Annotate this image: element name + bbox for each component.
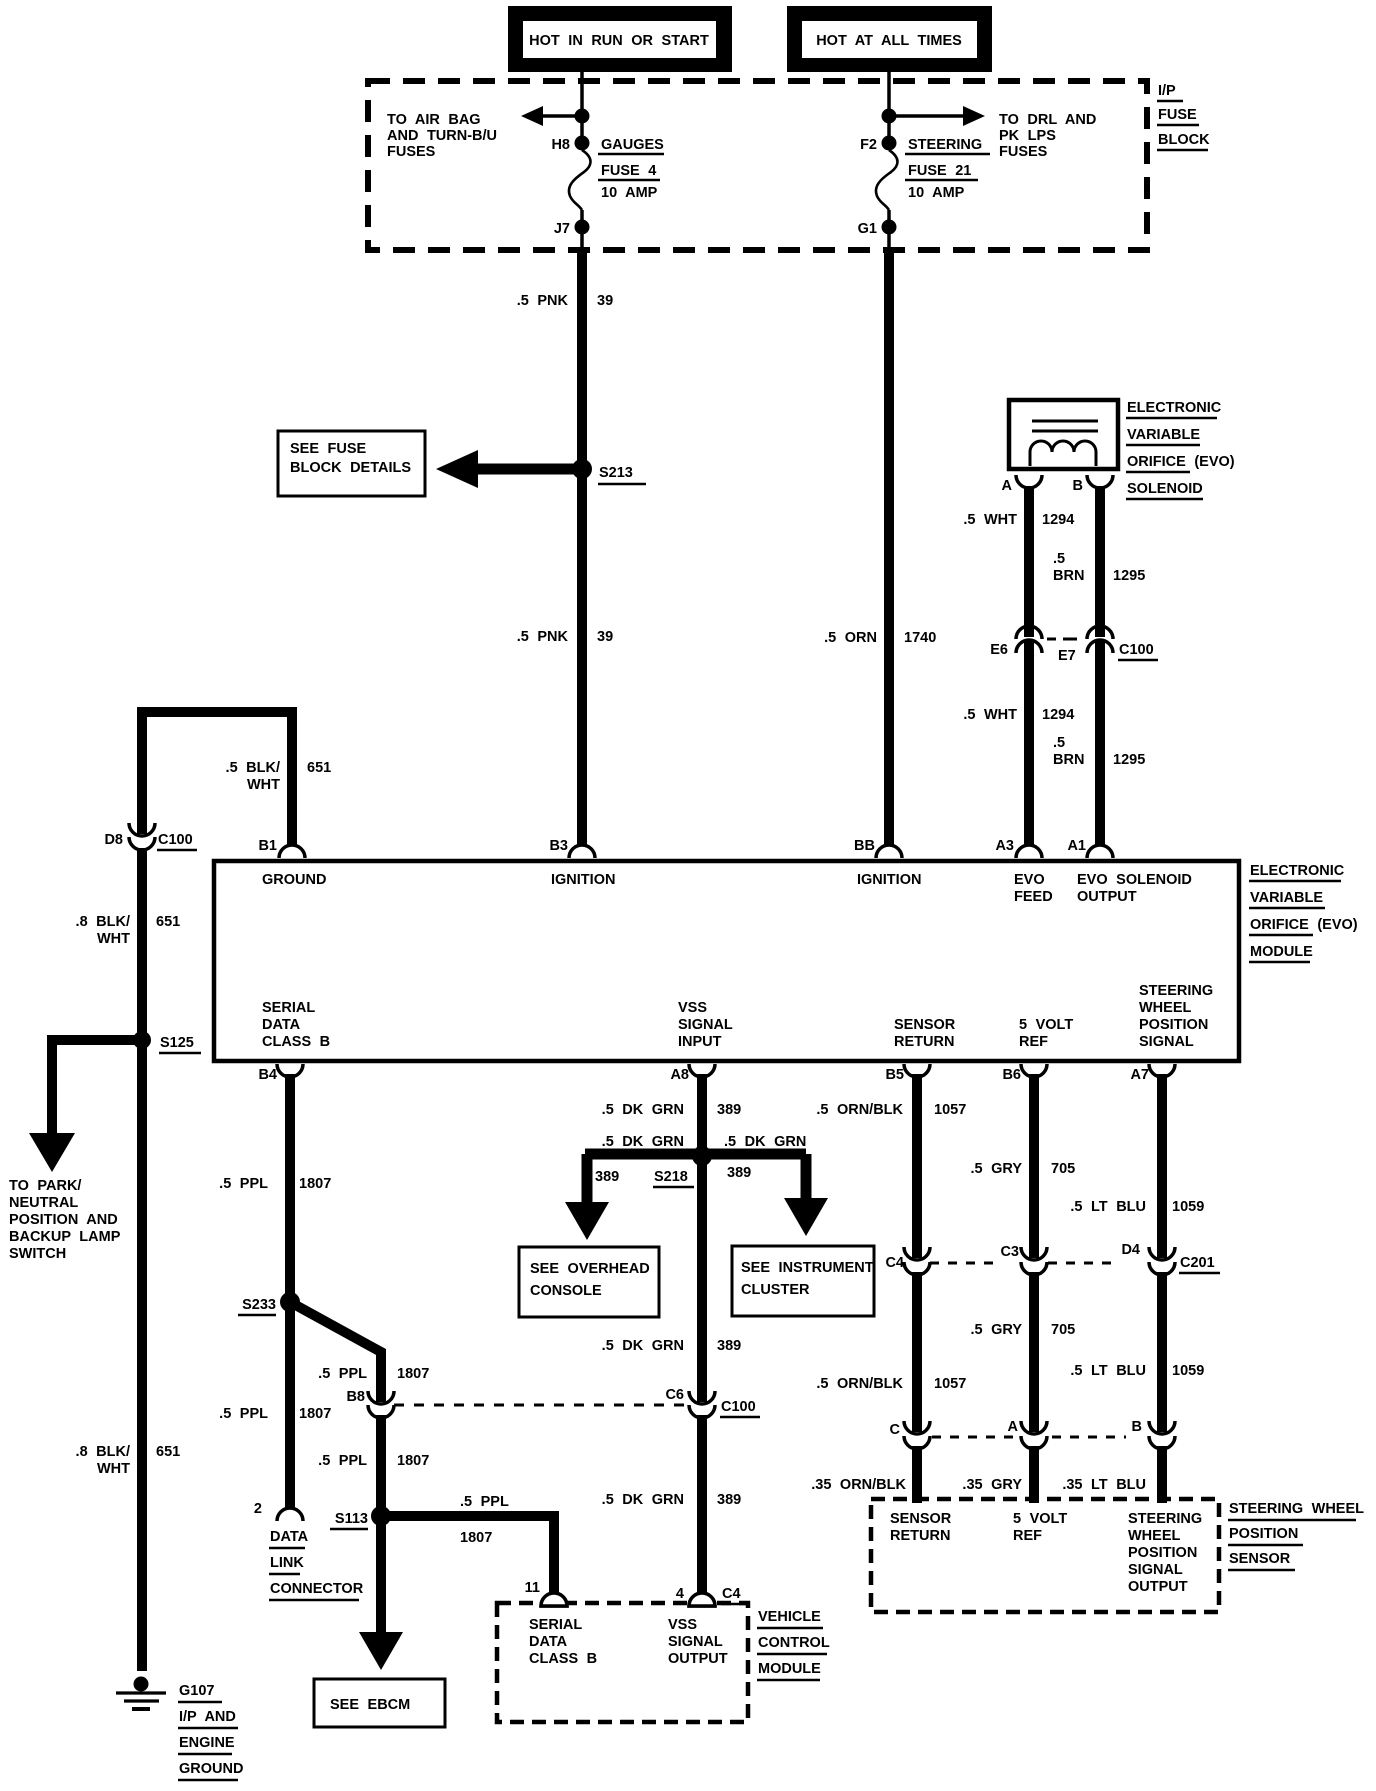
svg-text:STEERING: STEERING	[1128, 1511, 1202, 1527]
svg-text:B3: B3	[549, 838, 568, 854]
svg-text:BLOCK DETAILS: BLOCK DETAILS	[290, 460, 411, 476]
svg-text:GAUGES: GAUGES	[601, 137, 664, 153]
svg-text:OUTPUT: OUTPUT	[668, 1651, 728, 1667]
svg-text:1294: 1294	[1042, 512, 1074, 528]
svg-text:BACKUP LAMP: BACKUP LAMP	[9, 1229, 121, 1245]
svg-text:.5 LT BLU: .5 LT BLU	[1070, 1199, 1146, 1215]
svg-text:STEERING WHEEL: STEERING WHEEL	[1229, 1501, 1364, 1517]
svg-text:B: B	[1132, 1419, 1142, 1435]
svg-text:389: 389	[727, 1165, 751, 1181]
svg-text:1740: 1740	[904, 630, 936, 646]
svg-text:I/P: I/P	[1158, 83, 1176, 99]
svg-text:ELECTRONIC: ELECTRONIC	[1127, 400, 1222, 416]
svg-text:1807: 1807	[397, 1453, 429, 1469]
svg-text:1295: 1295	[1113, 752, 1145, 768]
svg-text:1807: 1807	[299, 1406, 331, 1422]
svg-text:SENSOR: SENSOR	[894, 1017, 956, 1033]
svg-text:D4: D4	[1121, 1242, 1140, 1258]
svg-text:SEE FUSE: SEE FUSE	[290, 441, 367, 457]
svg-text:FUSE 4: FUSE 4	[601, 163, 656, 179]
svg-text:389: 389	[717, 1338, 741, 1354]
svg-text:A1: A1	[1067, 838, 1086, 854]
svg-text:E7: E7	[1058, 648, 1076, 664]
svg-text:1057: 1057	[934, 1376, 966, 1392]
svg-text:39: 39	[597, 629, 613, 645]
svg-text:IGNITION: IGNITION	[857, 872, 921, 888]
svg-text:E6: E6	[990, 642, 1008, 658]
svg-text:TO DRL AND: TO DRL AND	[999, 112, 1096, 128]
svg-text:S218: S218	[654, 1169, 688, 1185]
svg-text:FUSE: FUSE	[1158, 107, 1197, 123]
svg-text:SEE EBCM: SEE EBCM	[330, 1697, 410, 1713]
svg-text:ELECTRONIC: ELECTRONIC	[1250, 863, 1345, 879]
svg-text:SEE INSTRUMENT: SEE INSTRUMENT	[741, 1260, 874, 1276]
svg-text:S233: S233	[242, 1297, 276, 1313]
svg-text:POSITION: POSITION	[1229, 1526, 1298, 1542]
svg-text:C4: C4	[722, 1586, 741, 1602]
svg-text:TO PARK/: TO PARK/	[9, 1178, 81, 1194]
svg-text:HOT IN RUN OR START: HOT IN RUN OR START	[529, 33, 709, 49]
svg-text:WHT: WHT	[97, 931, 130, 947]
svg-text:OUTPUT: OUTPUT	[1128, 1579, 1188, 1595]
svg-text:STEERING: STEERING	[1139, 983, 1213, 999]
svg-text:A: A	[1002, 478, 1013, 494]
svg-text:POSITION: POSITION	[1128, 1545, 1197, 1561]
svg-text:VARIABLE: VARIABLE	[1250, 890, 1323, 906]
svg-text:MODULE: MODULE	[1250, 944, 1313, 960]
svg-text:5 VOLT: 5 VOLT	[1019, 1017, 1073, 1033]
svg-text:.5 DK GRN: .5 DK GRN	[602, 1102, 684, 1118]
svg-text:WHEEL: WHEEL	[1128, 1528, 1181, 1544]
svg-text:FUSES: FUSES	[387, 144, 436, 160]
svg-text:BRN: BRN	[1053, 568, 1084, 584]
svg-text:651: 651	[307, 760, 331, 776]
svg-text:VARIABLE: VARIABLE	[1127, 427, 1200, 443]
svg-text:MODULE: MODULE	[758, 1661, 821, 1677]
svg-text:C4: C4	[885, 1255, 904, 1271]
svg-text:.5 DK GRN: .5 DK GRN	[602, 1134, 684, 1150]
svg-text:HOT AT ALL TIMES: HOT AT ALL TIMES	[816, 33, 962, 49]
svg-text:WHEEL: WHEEL	[1139, 1000, 1192, 1016]
svg-text:1294: 1294	[1042, 707, 1074, 723]
svg-text:EVO: EVO	[1014, 872, 1045, 888]
svg-text:LINK: LINK	[270, 1555, 304, 1571]
svg-text:C100: C100	[158, 832, 193, 848]
svg-text:FEED: FEED	[1014, 889, 1053, 905]
svg-text:C: C	[890, 1422, 901, 1438]
svg-text:1059: 1059	[1172, 1363, 1204, 1379]
svg-text:S125: S125	[160, 1035, 194, 1051]
svg-text:C3: C3	[1000, 1244, 1019, 1260]
svg-text:SWITCH: SWITCH	[9, 1246, 66, 1262]
svg-text:SIGNAL: SIGNAL	[1139, 1034, 1194, 1050]
svg-text:.5 DK GRN: .5 DK GRN	[602, 1492, 684, 1508]
svg-text:389: 389	[595, 1169, 619, 1185]
svg-text:.5 PPL: .5 PPL	[318, 1453, 367, 1469]
svg-text:ORIFICE (EVO): ORIFICE (EVO)	[1127, 454, 1235, 470]
svg-text:389: 389	[717, 1492, 741, 1508]
svg-text:B6: B6	[1002, 1067, 1021, 1083]
svg-text:.5 GRY: .5 GRY	[970, 1322, 1022, 1338]
svg-text:SENSOR: SENSOR	[1229, 1551, 1291, 1567]
svg-text:1295: 1295	[1113, 568, 1145, 584]
svg-text:.5 GRY: .5 GRY	[970, 1161, 1022, 1177]
svg-text:5 VOLT: 5 VOLT	[1013, 1511, 1067, 1527]
svg-text:A7: A7	[1130, 1067, 1149, 1083]
svg-text:.5 PPL: .5 PPL	[460, 1494, 509, 1510]
svg-text:GROUND: GROUND	[179, 1761, 243, 1777]
svg-text:GROUND: GROUND	[262, 872, 326, 888]
svg-text:.5 ORN: .5 ORN	[824, 630, 877, 646]
svg-text:389: 389	[717, 1102, 741, 1118]
svg-text:SERIAL: SERIAL	[262, 1000, 315, 1016]
svg-text:.35 GRY: .35 GRY	[962, 1477, 1022, 1493]
svg-text:REF: REF	[1013, 1528, 1042, 1544]
svg-text:SIGNAL: SIGNAL	[678, 1017, 733, 1033]
svg-text:.5 LT BLU: .5 LT BLU	[1070, 1363, 1146, 1379]
svg-text:.5 DK GRN: .5 DK GRN	[602, 1338, 684, 1354]
svg-text:SEE OVERHEAD: SEE OVERHEAD	[530, 1261, 650, 1277]
svg-text:DATA: DATA	[270, 1529, 309, 1545]
svg-text:10 AMP: 10 AMP	[601, 185, 658, 201]
svg-text:CLUSTER: CLUSTER	[741, 1282, 810, 1298]
svg-text:PK LPS: PK LPS	[999, 128, 1056, 144]
svg-text:TO AIR BAG: TO AIR BAG	[387, 112, 481, 128]
svg-text:S113: S113	[335, 1511, 368, 1527]
svg-text:RETURN: RETURN	[894, 1034, 954, 1050]
svg-text:G107: G107	[179, 1683, 214, 1699]
svg-text:C100: C100	[1119, 642, 1154, 658]
svg-text:SERIAL: SERIAL	[529, 1617, 582, 1633]
svg-text:.5 WHT: .5 WHT	[963, 512, 1017, 528]
svg-text:AND TURN-B/U: AND TURN-B/U	[387, 128, 497, 144]
svg-text:IGNITION: IGNITION	[551, 872, 615, 888]
svg-text:.35 ORN/BLK: .35 ORN/BLK	[811, 1477, 906, 1493]
svg-text:CLASS B: CLASS B	[262, 1034, 330, 1050]
svg-text:11: 11	[525, 1580, 540, 1596]
svg-text:REF: REF	[1019, 1034, 1048, 1050]
svg-text:C6: C6	[665, 1387, 684, 1403]
svg-text:B1: B1	[258, 838, 277, 854]
svg-text:H8: H8	[551, 137, 570, 153]
svg-text:B8: B8	[346, 1389, 365, 1405]
svg-text:VSS: VSS	[668, 1617, 697, 1633]
svg-text:.5 BLK/: .5 BLK/	[226, 760, 280, 776]
svg-text:ORIFICE (EVO): ORIFICE (EVO)	[1250, 917, 1358, 933]
svg-text:J7: J7	[554, 221, 570, 237]
svg-text:I/P AND: I/P AND	[179, 1709, 236, 1725]
svg-text:.5 PPL: .5 PPL	[219, 1406, 268, 1422]
svg-text:4: 4	[676, 1586, 684, 1602]
svg-text:.5 PNK: .5 PNK	[517, 629, 569, 645]
svg-text:705: 705	[1051, 1322, 1075, 1338]
svg-text:10 AMP: 10 AMP	[908, 185, 965, 201]
svg-text:CONTROL: CONTROL	[758, 1635, 830, 1651]
svg-text:SIGNAL: SIGNAL	[668, 1634, 723, 1650]
svg-text:WHT: WHT	[97, 1461, 130, 1477]
svg-text:CLASS B: CLASS B	[529, 1651, 597, 1667]
svg-text:BB: BB	[854, 838, 875, 854]
svg-text:C201: C201	[1180, 1255, 1215, 1271]
svg-text:1057: 1057	[934, 1102, 966, 1118]
svg-text:RETURN: RETURN	[890, 1528, 950, 1544]
svg-text:B4: B4	[258, 1067, 277, 1083]
svg-text:ENGINE: ENGINE	[179, 1735, 235, 1751]
svg-text:BLOCK: BLOCK	[1158, 132, 1210, 148]
svg-text:39: 39	[597, 293, 613, 309]
svg-text:.5 PPL: .5 PPL	[219, 1176, 268, 1192]
svg-text:A: A	[1008, 1419, 1019, 1435]
svg-text:.5 ORN/BLK: .5 ORN/BLK	[816, 1102, 903, 1118]
svg-text:.5 WHT: .5 WHT	[963, 707, 1017, 723]
svg-text:WHT: WHT	[247, 777, 280, 793]
svg-text:STEERING: STEERING	[908, 137, 982, 153]
svg-text:A8: A8	[670, 1067, 689, 1083]
svg-text:EVO SOLENOID: EVO SOLENOID	[1077, 872, 1192, 888]
svg-text:2: 2	[254, 1501, 262, 1517]
svg-text:B: B	[1073, 478, 1083, 494]
svg-text:A3: A3	[995, 838, 1014, 854]
svg-text:.5 ORN/BLK: .5 ORN/BLK	[816, 1376, 903, 1392]
svg-text:.5 DK GRN: .5 DK GRN	[724, 1134, 806, 1150]
svg-text:VSS: VSS	[678, 1000, 707, 1016]
svg-text:DATA: DATA	[262, 1017, 301, 1033]
svg-text:S213: S213	[599, 465, 633, 481]
svg-text:SIGNAL: SIGNAL	[1128, 1562, 1183, 1578]
svg-text:C100: C100	[721, 1399, 756, 1415]
svg-text:INPUT: INPUT	[678, 1034, 722, 1050]
svg-text:.5 PPL: .5 PPL	[318, 1366, 367, 1382]
svg-text:1807: 1807	[299, 1176, 331, 1192]
svg-text:SENSOR: SENSOR	[890, 1511, 952, 1527]
svg-text:POSITION AND: POSITION AND	[9, 1212, 118, 1228]
svg-text:651: 651	[156, 914, 180, 930]
svg-text:DATA: DATA	[529, 1634, 568, 1650]
svg-text:B5: B5	[885, 1067, 904, 1083]
svg-text:.8 BLK/: .8 BLK/	[76, 1444, 130, 1460]
svg-text:.5: .5	[1053, 735, 1065, 751]
svg-text:BRN: BRN	[1053, 752, 1084, 768]
svg-text:G1: G1	[858, 221, 877, 237]
svg-text:.5 PNK: .5 PNK	[517, 293, 569, 309]
svg-text:VEHICLE: VEHICLE	[758, 1609, 821, 1625]
svg-text:.35 LT BLU: .35 LT BLU	[1062, 1477, 1146, 1493]
svg-text:CONSOLE: CONSOLE	[530, 1283, 602, 1299]
svg-text:1807: 1807	[460, 1530, 492, 1546]
svg-text:D8: D8	[104, 832, 123, 848]
svg-text:705: 705	[1051, 1161, 1075, 1177]
svg-text:.5: .5	[1053, 551, 1065, 567]
svg-text:NEUTRAL: NEUTRAL	[9, 1195, 78, 1211]
svg-text:.8 BLK/: .8 BLK/	[76, 914, 130, 930]
svg-text:OUTPUT: OUTPUT	[1077, 889, 1137, 905]
svg-text:FUSES: FUSES	[999, 144, 1048, 160]
svg-text:FUSE 21: FUSE 21	[908, 163, 971, 179]
svg-text:1807: 1807	[397, 1366, 429, 1382]
svg-text:CONNECTOR: CONNECTOR	[270, 1581, 364, 1597]
svg-text:SOLENOID: SOLENOID	[1127, 481, 1203, 497]
svg-text:POSITION: POSITION	[1139, 1017, 1208, 1033]
svg-text:1059: 1059	[1172, 1199, 1204, 1215]
svg-text:F2: F2	[860, 137, 877, 153]
svg-text:651: 651	[156, 1444, 180, 1460]
